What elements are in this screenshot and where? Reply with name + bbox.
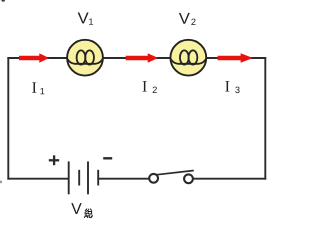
label I3 — [225, 81, 229, 91]
switch terminal left — [149, 174, 158, 183]
current arrow 2 — [126, 53, 159, 62]
battery plate long (left, +) — [68, 161, 70, 194]
lamp V1 — [67, 40, 104, 76]
switch lever — [157, 171, 194, 175]
current arrow 3 — [218, 53, 253, 62]
wire left vertical — [7, 57, 9, 180]
lamp V2 — [170, 40, 207, 76]
wire top horizontal — [7, 57, 266, 59]
label V-total: kanji (total) drawn as strokes — [85, 209, 93, 218]
wire right vertical — [264, 57, 266, 180]
wire bottom mid (battery to switch) — [98, 178, 148, 180]
label V2 — [179, 13, 190, 24]
label V-total: V — [71, 203, 81, 214]
wire bottom left (to battery) — [7, 178, 68, 180]
battery plate short (right, -) — [97, 170, 99, 186]
crop artifact left edge — [0, 181, 2, 184]
wire bottom right (switch to corner) — [194, 178, 267, 180]
label I1 — [32, 82, 36, 92]
label V1 — [78, 13, 89, 24]
battery plate long (second cell) — [87, 161, 89, 194]
minus sign — [103, 157, 112, 159]
plus sign — [49, 155, 59, 165]
current arrow 1 — [19, 53, 49, 62]
switch terminal right — [184, 174, 193, 183]
battery plate short — [78, 170, 80, 186]
label I2 — [143, 81, 147, 91]
crop artifact top-left — [1, 0, 5, 2]
